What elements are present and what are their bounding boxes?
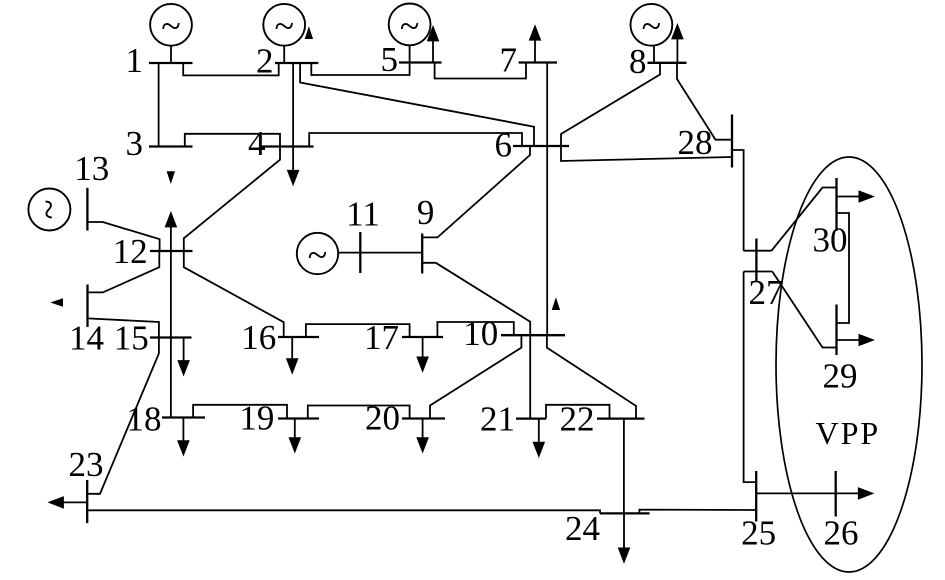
- svg-text:25: 25: [741, 514, 776, 553]
- svg-text:~: ~: [161, 6, 180, 46]
- svg-text:~: ~: [308, 235, 327, 275]
- svg-text:7: 7: [500, 41, 518, 80]
- svg-text:VPP: VPP: [816, 415, 881, 451]
- svg-text:19: 19: [239, 399, 274, 438]
- svg-text:28: 28: [678, 123, 713, 162]
- svg-text:1: 1: [126, 41, 144, 80]
- svg-text:4: 4: [248, 124, 266, 163]
- svg-text:17: 17: [364, 318, 399, 357]
- svg-text:~: ~: [27, 199, 68, 219]
- svg-text:~: ~: [400, 6, 419, 46]
- svg-text:18: 18: [127, 400, 162, 439]
- svg-text:~: ~: [274, 6, 293, 46]
- svg-text:26: 26: [824, 514, 859, 553]
- svg-text:24: 24: [565, 509, 600, 548]
- svg-text:13: 13: [74, 149, 109, 188]
- svg-text:11: 11: [346, 195, 380, 234]
- svg-text:8: 8: [629, 42, 647, 81]
- svg-text:~: ~: [642, 6, 661, 46]
- svg-text:30: 30: [813, 221, 848, 260]
- svg-text:2: 2: [256, 42, 274, 81]
- svg-text:20: 20: [365, 399, 400, 438]
- svg-text:22: 22: [560, 400, 595, 439]
- svg-text:10: 10: [463, 314, 498, 353]
- svg-text:12: 12: [113, 232, 148, 271]
- svg-text:14: 14: [69, 319, 104, 358]
- svg-text:23: 23: [69, 445, 104, 484]
- svg-text:9: 9: [417, 193, 435, 232]
- svg-text:29: 29: [823, 357, 858, 396]
- svg-text:27: 27: [749, 273, 784, 312]
- svg-text:6: 6: [495, 125, 513, 164]
- svg-text:5: 5: [381, 40, 399, 79]
- svg-text:21: 21: [480, 399, 515, 438]
- svg-text:15: 15: [114, 319, 149, 358]
- svg-text:16: 16: [241, 318, 276, 357]
- svg-text:3: 3: [126, 124, 144, 163]
